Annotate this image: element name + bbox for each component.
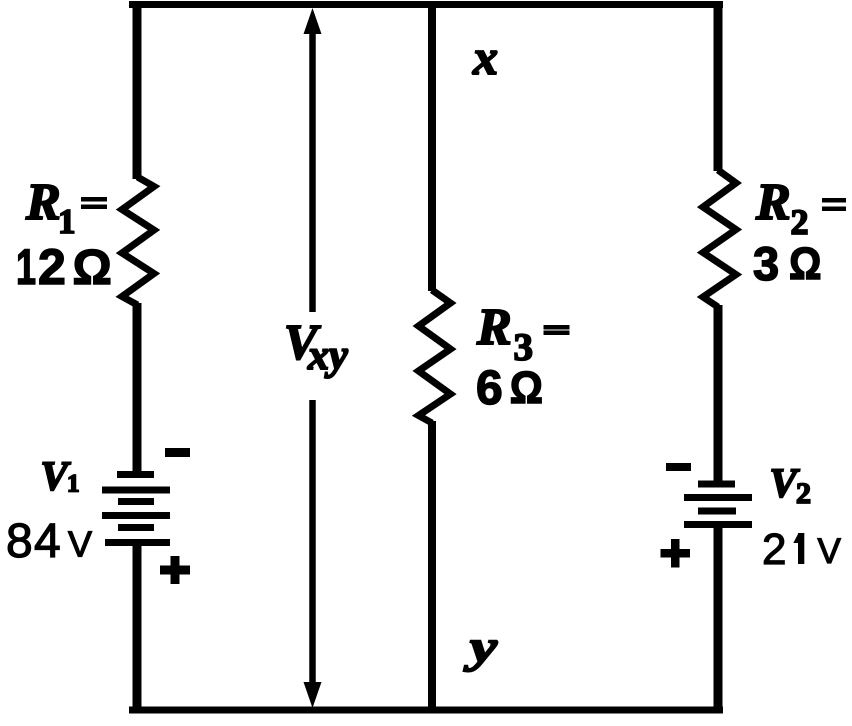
label Vxy [284, 314, 348, 380]
svg-text:x: x [472, 29, 498, 85]
svg-text:6: 6 [476, 362, 503, 415]
Vxy arrow upper shaft and up arrowhead [304, 8, 322, 312]
battery V1 [102, 475, 170, 543]
label 3 Ω [753, 237, 821, 290]
wire V2 to bottom [714, 524, 723, 712]
label 84 V [6, 515, 92, 568]
svg-text:V: V [68, 524, 92, 565]
equals sign of R2 [822, 198, 846, 211]
label R3 [476, 299, 533, 369]
svg-text:8: 8 [6, 515, 33, 568]
minus sign V1 [165, 448, 190, 457]
resistor R2 [703, 170, 736, 307]
wire R1 to battery V1 [133, 303, 142, 474]
svg-text:3: 3 [753, 237, 779, 290]
svg-text:1: 1 [16, 240, 36, 295]
svg-text:2: 2 [796, 477, 811, 510]
node y label [463, 621, 498, 672]
wire R3 to bottom [428, 421, 436, 712]
resistor R3 [419, 290, 451, 423]
svg-text:R: R [755, 174, 791, 231]
svg-text:2: 2 [791, 202, 809, 242]
label V1 [41, 453, 80, 499]
wire: left branch top segment [133, 1, 142, 179]
svg-text:4: 4 [34, 515, 61, 568]
label V2 [770, 460, 812, 511]
wire: middle branch top segment [428, 1, 436, 291]
plus sign V2 [661, 539, 691, 568]
svg-text:Ω: Ω [510, 363, 543, 413]
label 21 V [762, 525, 842, 574]
svg-text:2: 2 [762, 525, 786, 574]
equals sign of R1 [81, 197, 107, 209]
wire V1 to bottom [133, 542, 142, 712]
plus sign V1 [160, 556, 190, 584]
svg-text:1: 1 [67, 471, 80, 498]
label R2 [755, 174, 809, 242]
minus sign V2 [666, 463, 691, 471]
wire: right branch top segment [714, 1, 723, 171]
Vxy arrow lower shaft and down arrowhead [304, 400, 322, 708]
svg-text:V: V [818, 532, 842, 571]
label 6 Ω [476, 362, 543, 415]
bottom wire [129, 707, 723, 714]
svg-text:xy: xy [307, 333, 348, 379]
wire R2 to battery V2 [714, 305, 723, 484]
label 12 Ω [16, 239, 112, 295]
svg-text:2: 2 [38, 239, 66, 295]
svg-text:R: R [476, 299, 512, 356]
label R1 [25, 174, 76, 241]
battery V2 [684, 484, 752, 525]
svg-text:R: R [25, 174, 61, 231]
resistor R1 [122, 177, 154, 305]
svg-text:Ω: Ω [789, 239, 821, 289]
svg-text:1: 1 [58, 202, 76, 241]
equals sign of R3 [544, 325, 570, 335]
top wire [129, 1, 723, 8]
svg-text:Ω: Ω [73, 241, 112, 295]
